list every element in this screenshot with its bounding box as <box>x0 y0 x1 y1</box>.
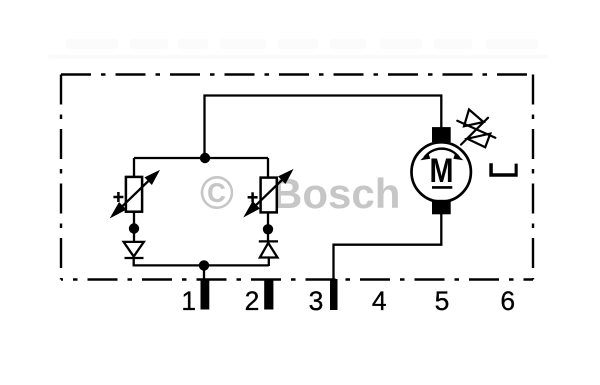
wire: node B stem to terminal 1 <box>203 265 205 279</box>
motor rotation arrow <box>420 149 463 161</box>
wire: motor bottom to terminal 3 <box>334 214 442 280</box>
plus polarity label left <box>113 192 123 202</box>
watermark copyright Bosch <box>200 167 400 219</box>
svg-text:2: 2 <box>245 286 260 316</box>
dash-dot component boundary frame <box>61 75 533 280</box>
diode V2 (cathode up) <box>259 241 278 257</box>
svg-text:Bosch: Bosch <box>272 170 400 217</box>
diode V1 (cathode down) <box>124 242 144 258</box>
node A junction dot <box>200 153 210 163</box>
svg-text:M: M <box>430 152 454 190</box>
svg-text:5: 5 <box>435 286 450 316</box>
wire: R2 bottom to diode V2 <box>267 213 269 242</box>
wire: horizontal bus between resistor branches <box>134 157 268 159</box>
interference suppressor symbol <box>457 110 495 148</box>
resistor R1 adjustment arrow <box>113 172 158 215</box>
wire: left branch vertical to resistor R1 <box>133 158 135 177</box>
plus polarity label right <box>248 192 258 202</box>
svg-text:6: 6 <box>500 286 515 316</box>
svg-text:4: 4 <box>372 286 387 316</box>
wire: V2 bottom to bottom bus <box>268 258 270 267</box>
resistor R2 (variable) body <box>261 178 277 213</box>
wire: right branch vertical to resistor R2 <box>267 158 269 178</box>
wire: R1 bottom to diode V1 <box>133 212 135 242</box>
terminal number labels <box>181 286 515 316</box>
resistor R2 adjustment arrow <box>246 171 291 214</box>
terminal 1 pin bar <box>201 279 210 310</box>
terminal 3 pin bar <box>330 279 338 310</box>
wire: top feed from node A to motor top <box>205 96 442 159</box>
junction dot right branch <box>263 224 273 234</box>
svg-text:1: 1 <box>181 286 196 316</box>
motor M1 body <box>412 142 471 201</box>
resistor R1 (variable) body <box>126 177 142 212</box>
faint ghost text row (artifact) <box>66 39 538 49</box>
motor M1 letter underline <box>432 186 452 189</box>
motor M1 bottom brush <box>432 200 451 215</box>
wire: bottom bus to node B <box>133 264 269 266</box>
svg-text:©: © <box>200 167 234 219</box>
terminal 2 pin bar <box>264 279 273 310</box>
bracket symbol (holder) <box>489 163 517 177</box>
node B junction dot <box>199 260 209 270</box>
wire: V1 to bottom bus <box>133 258 135 265</box>
motor M1 top brush <box>432 127 451 142</box>
svg-text:3: 3 <box>309 286 324 316</box>
junction dot left branch <box>129 223 139 233</box>
faint ghost dotted row (artifact) <box>48 55 548 59</box>
